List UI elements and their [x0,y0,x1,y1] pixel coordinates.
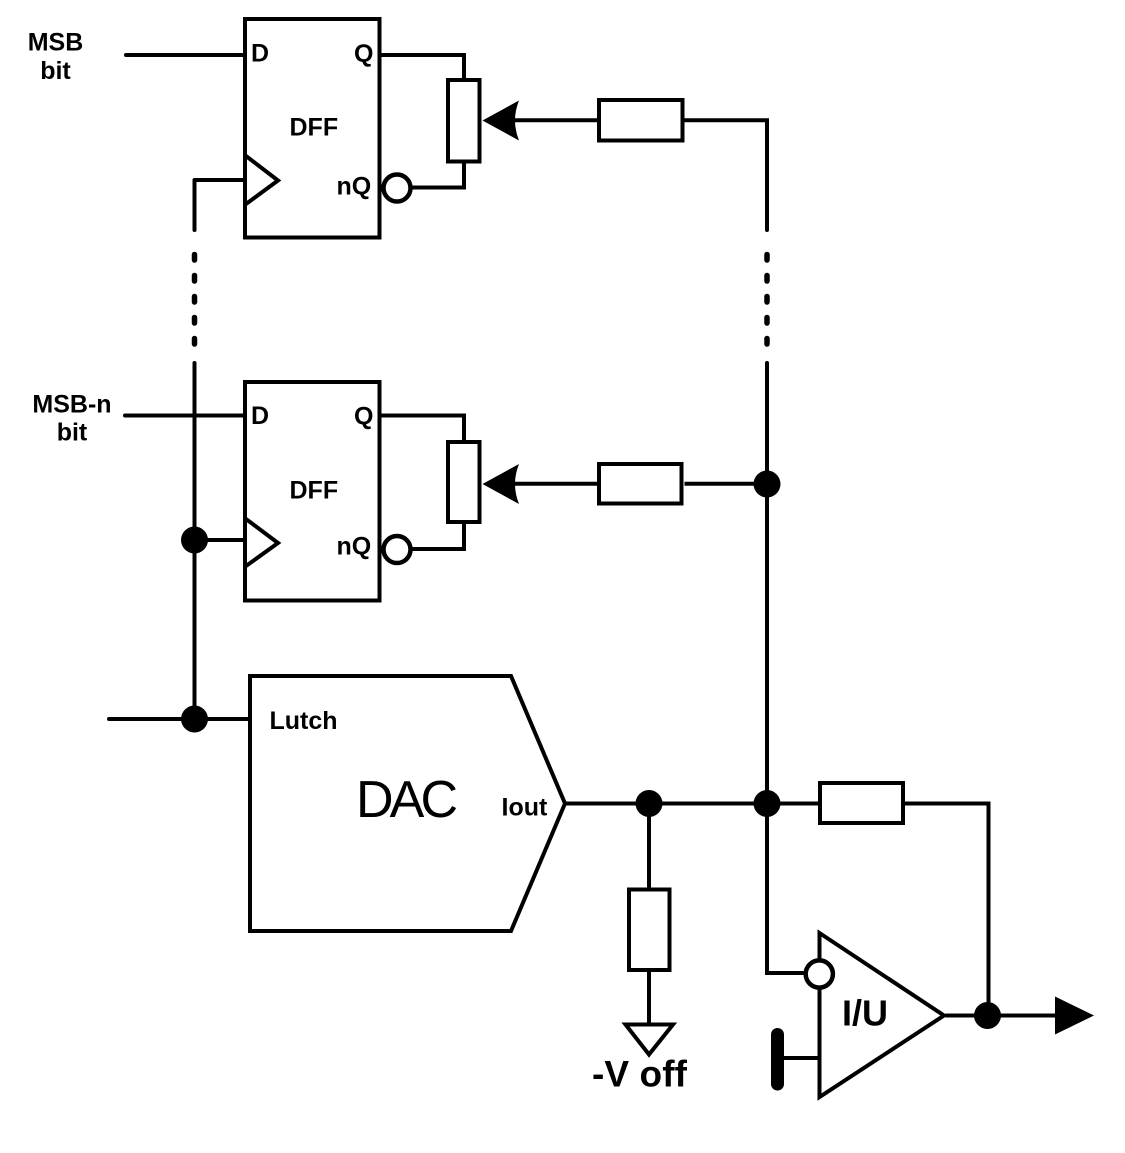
svg-text:Iout: Iout [502,794,548,822]
resistor R5 [599,100,683,141]
wire Iout net [565,802,818,806]
junction right bus row2 [754,471,781,498]
svg-text:Q: Q [354,403,373,431]
junction clock node at U2 [181,527,208,554]
wire arrow to resistor R6 [515,482,597,486]
wire op-amp output [946,1014,1057,1018]
wire R5 to right bus [685,120,768,230]
resistor R6 [599,464,682,504]
wire R6 to right bus [685,482,768,486]
wire Q of U1 to resistor R1 [380,55,465,78]
resistor R4 feedback [820,783,903,823]
wire Q of U2 to resistor R2 [380,416,465,441]
svg-text:nQ: nQ [337,533,372,561]
clock triangle of U2 [246,519,278,566]
wire R3 to -V off terminal [647,972,651,1023]
svg-text:bit: bit [40,57,71,85]
wire R4 to output node [905,804,989,1016]
svg-text:I/U: I/U [842,993,888,1034]
junction output node [974,1002,1001,1029]
svg-text:Q: Q [354,40,373,68]
wire latch input [109,717,250,721]
D flip-flop U1 body [245,19,380,238]
svg-text:DFF: DFF [290,114,339,142]
wire ground bar to U4 [784,1056,819,1060]
svg-text:D: D [251,40,269,68]
inversion bubble inverting input U4 [806,960,833,987]
arrow into R1 wiper [483,101,520,141]
resistor R3 offset [629,890,670,971]
wire nQ bubble U2 to bottom of R2 [411,524,465,549]
resistor R2 [448,442,480,522]
inversion bubble on nQ of U1 [384,175,411,202]
svg-text:D: D [251,402,269,430]
DAC U3 body [250,676,565,931]
resistor R1 [448,80,480,162]
inversion bubble on nQ of U2 [384,536,411,563]
svg-text:DFF: DFF [290,477,339,505]
svg-text:nQ: nQ [337,173,372,201]
dashed clock bus segment left [192,255,198,345]
wire right bus solid lower [767,363,805,973]
wire clock bus left upper [193,180,197,230]
junction Iout to right bus [754,790,781,817]
wire clock junction to U2 [195,538,246,542]
svg-text:DAC: DAC [356,771,458,829]
svg-text:-V off: -V off [592,1054,688,1095]
wire clock stub to U1 [195,178,246,182]
op-amp U4 body [820,933,945,1097]
wire offset branch down [647,804,651,888]
wire nQ bubble to bottom of R1 [411,162,465,188]
wire arrow to resistor R5 [515,118,597,122]
terminal triangle -V off [626,1025,674,1055]
arrow into R2 wiper [483,464,520,504]
svg-text:MSB-n: MSB-n [32,391,111,419]
ground bar non-inverting input [771,1035,784,1085]
junction Iout to offset branch [636,790,663,817]
svg-text:bit: bit [57,419,88,447]
D flip-flop U2 body [245,382,380,601]
clock triangle of U1 [246,156,278,204]
svg-text:MSB: MSB [28,29,84,57]
junction latch node [181,706,208,733]
wire clock bus left lower [193,363,197,719]
wire MSB-n bit to D of DFF2 [125,414,245,418]
svg-text:Lutch: Lutch [270,707,338,735]
wire MSB bit to D of DFF1 [126,53,245,57]
arrowhead output [1055,997,1094,1035]
dashed bus segment right [764,255,770,345]
